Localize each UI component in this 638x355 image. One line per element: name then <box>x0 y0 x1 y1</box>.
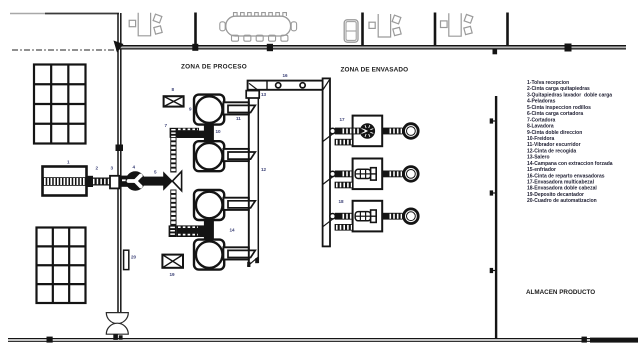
svg-text:9-Cinta doble direccion: 9-Cinta doble direccion <box>527 130 582 136</box>
svg-text:17-Envasadora multicabezal: 17-Envasadora multicabezal <box>527 180 595 186</box>
svg-text:16: 16 <box>283 73 289 78</box>
svg-text:8-Lavadora: 8-Lavadora <box>527 124 554 130</box>
svg-text:4-Peladoras: 4-Peladoras <box>527 99 556 105</box>
svg-text:7: 7 <box>165 123 168 128</box>
svg-text:20: 20 <box>131 255 137 260</box>
svg-text:2-Cinta carga quitapiedras: 2-Cinta carga quitapiedras <box>527 86 590 92</box>
svg-text:1: 1 <box>67 160 70 165</box>
svg-text:14: 14 <box>230 228 236 233</box>
svg-text:5-Cinta inspeccion rodillos: 5-Cinta inspeccion rodillos <box>527 105 591 111</box>
svg-text:18: 18 <box>339 199 345 204</box>
svg-text:ALMACEN PRODUCTO: ALMACEN PRODUCTO <box>526 289 595 296</box>
svg-text:13-Salero: 13-Salero <box>527 155 550 161</box>
svg-text:19-Deposito decantador: 19-Deposito decantador <box>527 192 584 198</box>
svg-text:12: 12 <box>261 167 267 172</box>
svg-text:1-Tolva recepcion: 1-Tolva recepcion <box>527 80 569 86</box>
svg-text:20-Cuadro de automatizacion: 20-Cuadro de automatizacion <box>527 198 597 204</box>
svg-text:13: 13 <box>261 92 267 97</box>
svg-text:5: 5 <box>154 170 157 175</box>
svg-text:3: 3 <box>111 166 114 171</box>
svg-text:2: 2 <box>96 166 99 171</box>
svg-text:3-Quitapiedras lavador doble: 3-Quitapiedras lavador doble carga <box>527 92 612 98</box>
svg-text:14-Campana con extraccion forz: 14-Campana con extraccion forzada <box>527 161 613 167</box>
svg-text:11-Vibrador escurridor: 11-Vibrador escurridor <box>527 142 581 148</box>
svg-text:10: 10 <box>216 129 222 134</box>
svg-text:12-Cinta de recogida: 12-Cinta de recogida <box>527 148 576 154</box>
svg-text:11: 11 <box>236 116 241 121</box>
svg-text:18-Envasadora doble cabezal: 18-Envasadora doble cabezal <box>527 186 597 192</box>
svg-text:4: 4 <box>133 165 136 170</box>
svg-text:6-Cinta carga cortadora: 6-Cinta carga cortadora <box>527 111 583 117</box>
svg-text:ZONA DE ENVASADO: ZONA DE ENVASADO <box>341 67 409 74</box>
svg-text:15-enfriador: 15-enfriador <box>527 167 556 173</box>
svg-text:ZONA DE PROCESO: ZONA DE PROCESO <box>181 64 247 71</box>
svg-text:16-Cinta de reparto envasadora: 16-Cinta de reparto envasadoras <box>527 173 605 179</box>
svg-text:8: 8 <box>172 87 175 92</box>
svg-text:7-Cortadora: 7-Cortadora <box>527 117 556 123</box>
svg-text:9: 9 <box>189 107 192 112</box>
svg-text:10-Freidora: 10-Freidora <box>527 136 554 142</box>
svg-text:17: 17 <box>340 117 346 122</box>
svg-text:19: 19 <box>170 272 176 277</box>
